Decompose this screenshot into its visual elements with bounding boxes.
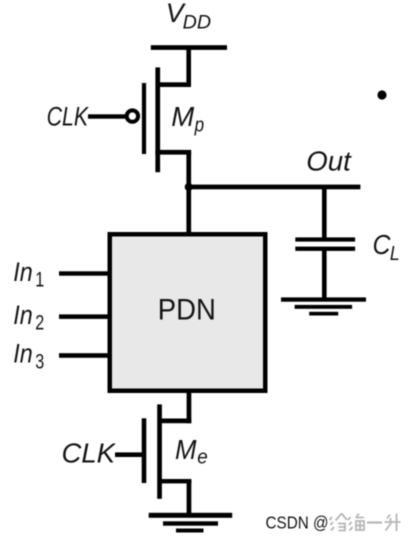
node Out junction dot: [185, 183, 193, 191]
transistor Q Me gate bar: [142, 418, 147, 483]
svg-text:CLK: CLK: [47, 102, 89, 132]
glyph sheng: [385, 514, 401, 532]
svg-text:C: C: [373, 229, 391, 260]
svg-text:L: L: [390, 243, 400, 265]
svg-text:p: p: [194, 115, 204, 137]
wire In3: [59, 353, 110, 358]
wire In1: [59, 271, 110, 275]
glyph hai: [348, 514, 364, 531]
wire capacitor CL to ground: [322, 251, 327, 299]
watermark CSDN: [266, 513, 401, 533]
label Mp: [171, 101, 204, 137]
label In3: [13, 339, 44, 374]
svg-text:M: M: [171, 101, 194, 132]
dot bullet top right: [377, 90, 386, 99]
svg-text:CLK: CLK: [62, 437, 117, 468]
svg-text:DD: DD: [183, 12, 212, 34]
label In1: [13, 257, 44, 292]
wire CLK to Me gate: [115, 452, 142, 457]
VDD supply rail: [151, 45, 227, 50]
transistor Q Mp channel bar: [155, 67, 160, 172]
svg-text:M: M: [175, 434, 197, 465]
transistor Q Me drain stub: [158, 419, 191, 424]
ground (below Me): [149, 513, 233, 533]
label In2: [13, 300, 44, 335]
ground (below CL): [281, 297, 366, 315]
label VDD: [166, 0, 211, 34]
capacitor CL bottom plate: [295, 247, 355, 251]
wire Me source to ground: [187, 480, 192, 513]
transistor Q Me source stub: [158, 479, 191, 483]
wire Out horizontal: [189, 185, 361, 190]
label Me: [175, 434, 208, 469]
wire In2: [59, 314, 110, 319]
transistor Q Mp source stub: [157, 82, 191, 87]
transistor Q Mp gate bar: [142, 83, 146, 154]
svg-text:PDN: PDN: [158, 294, 216, 327]
svg-text:In: In: [13, 257, 33, 287]
svg-text:3: 3: [35, 350, 44, 373]
transistor Q Mp gate bubble: [127, 110, 138, 121]
wire CLK to Mp gate bubble: [88, 114, 127, 118]
capacitor CL top plate: [295, 237, 355, 241]
glyph cang: [330, 514, 348, 531]
glyph yi: [367, 521, 382, 523]
label CL: [373, 229, 400, 265]
svg-text:Out: Out: [306, 145, 352, 176]
transistor Q Mp drain stub: [155, 150, 191, 155]
transistor Q Me channel bar: [157, 404, 162, 498]
wire VDD rail to Mp source: [186, 47, 191, 87]
svg-text:In: In: [13, 339, 33, 369]
svg-text:1: 1: [35, 268, 44, 291]
svg-text:In: In: [13, 300, 33, 330]
svg-text:e: e: [197, 447, 208, 469]
wire Mp drain to Out node and PDN top: [186, 154, 191, 234]
wire Out to capacitor CL top plate: [322, 188, 327, 238]
block PDN box: [110, 234, 266, 391]
svg-text:2: 2: [35, 312, 44, 335]
svg-text:CSDN @: CSDN @: [266, 513, 329, 533]
wire PDN bottom to Me drain: [187, 391, 192, 423]
